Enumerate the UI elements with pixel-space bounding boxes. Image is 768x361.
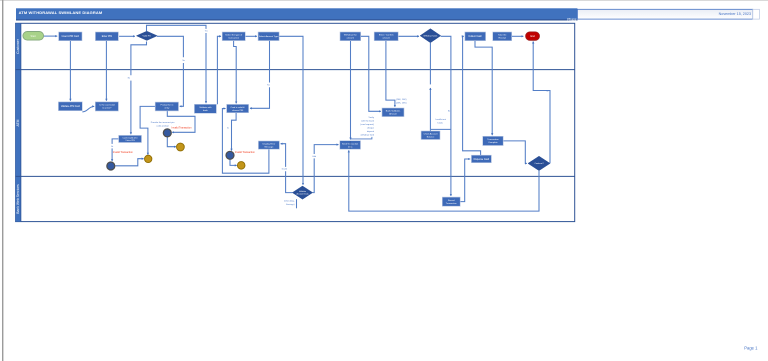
wire: Withdraw amount down to Send Transaction Data [350, 41, 352, 140]
title bar [16, 8, 577, 20]
start pill [23, 32, 44, 41]
swimlane frame [16, 23, 575, 221]
box: Select Amount Type [258, 32, 279, 41]
svg-text:funds: funds [438, 122, 444, 124]
svg-text:Validate: Validate [299, 190, 307, 193]
wire: Enter amount down to Bank Validates top [386, 41, 395, 107]
lane separator 1 [16, 69, 575, 71]
svg-text:Invalid Transaction: Invalid Transaction [172, 126, 193, 129]
box: Enter withdraw amount [374, 32, 398, 41]
wire: Valid PIN yes top loop to Validate with bank [147, 25, 207, 31]
wire: Prompt re-entry left to gold circle A [140, 106, 155, 154]
wire: Validate ATM Card to Check card validation [82, 106, 94, 111]
svg-text:Yes: Yes [267, 85, 270, 87]
svg-text:Insufficient: Insufficient [436, 118, 447, 121]
box: Record Transaction [442, 197, 460, 206]
svg-text:(Checking,: (Checking, [284, 201, 295, 203]
lane label column fill [16, 23, 21, 221]
svg-text:3x: 3x [227, 128, 229, 130]
svg-text:with the bank: with the bank [361, 119, 375, 122]
svg-text:Amount: Amount [389, 113, 397, 116]
svg-text:No: No [128, 78, 130, 80]
svg-text:Validate with: Validate with [199, 106, 212, 109]
box: Transaction Complete [483, 136, 504, 145]
invalid circle C [226, 151, 234, 159]
gold circle A [145, 155, 152, 162]
wire: Insert ATM Card down to Validate ATM Card [69, 41, 71, 101]
wire: Valid PIN bottom to Card invalid box [131, 42, 147, 76]
diamond: Continue [528, 156, 550, 170]
svg-text:Transaction: Transaction [487, 138, 499, 141]
box: Check Account Balance [421, 131, 440, 140]
wire: Validate Account Data valid to Send Transaction Data [313, 158, 315, 192]
svg-text:No: No [111, 146, 113, 148]
wire: invalid circle C to gold circle C [230, 159, 237, 165]
svg-text:Bank Web Services: Bank Web Services [16, 184, 20, 214]
box: Select type of transaction [222, 32, 245, 41]
box: Dispense Cash [471, 155, 491, 163]
window top gray border [0, 0, 768, 1]
wire: Enter PIN down to Check card validation [105, 41, 107, 101]
svg-text:Phase: Phase [567, 17, 577, 21]
wire: Transaction Complete to Continue diamond [503, 141, 527, 164]
date box [577, 9, 752, 19]
svg-text:November 15, 2023: November 15, 2023 [719, 12, 751, 16]
wire: Withdraw amount right to Bank Validates [361, 36, 381, 111]
svg-text:No: No [182, 60, 184, 62]
window left gray border [2, 0, 3, 361]
svg-text:Card is valid &: Card is valid & [231, 106, 246, 109]
svg-text:Display Error: Display Error [263, 143, 276, 146]
box: Check card validation [95, 102, 118, 111]
wire: Continue yes loop back to Send Transaction Data [349, 150, 539, 211]
invalid circle B [163, 129, 171, 137]
diamond: Withdraw funds [420, 29, 441, 43]
svg-text:(card request): (card request) [360, 123, 374, 126]
svg-text:Check Account: Check Account [424, 133, 438, 136]
box: Collect Cash [465, 32, 486, 41]
box: Card valid choose PIN [227, 104, 249, 112]
wire: Validate Account Data invalid to Display Error Message [286, 171, 293, 192]
wire: Select type down to Card valid choose PIN [234, 41, 237, 104]
svg-text:transaction: transaction [228, 37, 239, 40]
svg-text:Select the type of: Select the type of [225, 34, 242, 37]
svg-text:code prompt: code prompt [156, 124, 169, 127]
gold circle B [177, 143, 185, 151]
svg-text:Select Amount Type: Select Amount Type [259, 35, 279, 38]
svg-text:Transaction: Transaction [446, 202, 458, 205]
svg-text:Receipt: Receipt [498, 37, 506, 40]
wire: invalid circle A to gold circle A [115, 159, 143, 166]
box: Bank Validates [382, 108, 404, 117]
svg-text:Enter PIN: Enter PIN [102, 35, 113, 38]
wire crossing over send box [349, 141, 351, 149]
wire: Sufficient funds diamond down segment [429, 43, 431, 85]
invalid circle A [107, 162, 115, 170]
wire: Start to Insert ATM Card [44, 35, 57, 37]
box: Enter PIN [95, 32, 118, 41]
svg-text:deposit: deposit [367, 130, 374, 133]
svg-text:withdraw fund: withdraw fund [361, 133, 375, 136]
svg-text:(24K, 10K): (24K, 10K) [396, 99, 407, 101]
wire: Select Amount to Validate Account Data diamond [279, 36, 303, 185]
box: Display Error Message [258, 141, 279, 149]
svg-text:Record: Record [448, 199, 456, 202]
wire: Prompt re-entry bottom to invalid circle B [167, 111, 195, 132]
svg-text:ATM: ATM [16, 119, 20, 126]
svg-text:Message: Message [264, 147, 274, 149]
svg-text:Valid Pin: Valid Pin [143, 36, 152, 38]
wire: Take Receipt to End [512, 35, 524, 37]
leader line under verify note [350, 137, 372, 139]
svg-text:Account Data: Account Data [296, 193, 309, 196]
svg-text:Balance: Balance [427, 137, 435, 139]
svg-text:Take the: Take the [498, 34, 507, 37]
box: Take the Receipt [493, 32, 512, 41]
diamond: Validate Account Data [292, 186, 312, 199]
date box small end cap [753, 9, 760, 19]
wire: invalid circle B to gold circle B [167, 137, 176, 147]
wire: Enter amount to Sufficient funds diamond [398, 35, 419, 37]
wire: Collect Cash down to Transaction Complete [475, 41, 492, 135]
wire: Sufficient funds right down to Record Transaction [441, 36, 451, 196]
svg-text:ATM WITHDRAWAL SWIMLANE DIAGRA: ATM WITHDRAWAL SWIMLANE DIAGRAM [19, 10, 103, 15]
box: Validate ATM Card [58, 102, 82, 111]
svg-text:cheque: cheque [367, 127, 375, 129]
wire: Continue diamond no up to End [533, 42, 550, 164]
svg-text:& active?: & active? [102, 107, 112, 110]
gold circle C [237, 162, 245, 170]
box: Prompt for re-entry [155, 102, 178, 111]
box: Validate with bank [194, 104, 216, 113]
diamond: Valid Pin [136, 31, 157, 40]
svg-text:No: No [546, 90, 548, 92]
wire: Select type to Select Amount Type [245, 35, 257, 37]
box: Insert ATM Card [59, 32, 82, 41]
box: Card invalid after 3 tries [119, 135, 142, 142]
wire: Enter PIN to Valid PIN diamond [119, 35, 135, 37]
wire: Display Error loop to Card valid choose PIN [222, 109, 269, 174]
svg-text:Start: Start [31, 35, 37, 38]
svg-text:Verify: Verify [369, 116, 375, 119]
svg-text:Card invalid after: Card invalid after [122, 136, 137, 139]
wire: Card valid choose PIN down to invalid circle C [232, 113, 237, 151]
svg-text:Continue?: Continue? [534, 162, 544, 165]
svg-text:Yes: Yes [205, 31, 208, 33]
wire: Validate with bank up to Select transaction type [217, 36, 221, 104]
svg-text:Withdraw the: Withdraw the [344, 34, 358, 37]
wire: Select Amount bottom to Card valid choose PIN [269, 41, 271, 83]
svg-text:Complete: Complete [488, 141, 498, 144]
svg-text:Invalid: Invalid [282, 169, 287, 171]
svg-text:Bank Validates: Bank Validates [386, 110, 401, 113]
svg-text:(25K, 15K): (25K, 15K) [396, 102, 407, 104]
svg-text:Savings): Savings) [286, 204, 295, 206]
svg-text:Validate ATM Card: Validate ATM Card [61, 105, 81, 108]
wire: Record Transaction to Dispense Cash [460, 159, 470, 202]
svg-text:Invalid Transaction: Invalid Transaction [113, 151, 134, 154]
svg-text:Insert ATM Card: Insert ATM Card [62, 35, 80, 38]
svg-text:choose PIN: choose PIN [232, 110, 244, 112]
svg-text:amount: amount [383, 37, 391, 40]
svg-text:Collect Cash: Collect Cash [468, 35, 482, 38]
end pill [526, 32, 540, 40]
svg-text:End: End [530, 35, 535, 38]
wire: Valid PIN no to Prompt for re-entry [157, 36, 183, 57]
svg-text:3 tries PIN: 3 tries PIN [125, 139, 135, 142]
svg-text:amount: amount [347, 37, 355, 40]
svg-text:No: No [448, 111, 450, 113]
svg-text:Customer: Customer [16, 38, 20, 54]
lane separator 2 [16, 175, 575, 177]
wire: Dispense Cash up to Collect Cash [463, 36, 481, 155]
lane label column divider [20, 23, 22, 221]
svg-text:Prompt for re: Prompt for re [161, 104, 175, 107]
box: Send Transaction Data [340, 141, 361, 150]
svg-text:Page 1: Page 1 [744, 346, 758, 351]
svg-text:Enter / Confirm: Enter / Confirm [379, 34, 394, 37]
wire: Card invalid box to invalid circle A [112, 139, 119, 144]
svg-text:Valid: Valid [312, 156, 316, 158]
svg-text:Dispense Cash: Dispense Cash [474, 159, 490, 161]
box: Withdraw the amount [340, 32, 361, 41]
svg-text:Provide the incorrect pin: Provide the incorrect pin [151, 121, 175, 124]
svg-text:Withdraw funds: Withdraw funds [424, 34, 438, 37]
svg-text:Invalid Transaction: Invalid Transaction [235, 151, 256, 154]
wire: Check Account Balance up arrow segment [429, 88, 431, 131]
wire: account type stub [296, 199, 298, 208]
wire: Check Balance junction to record line [431, 128, 451, 130]
svg-text:Is the card valid: Is the card valid [99, 104, 115, 107]
